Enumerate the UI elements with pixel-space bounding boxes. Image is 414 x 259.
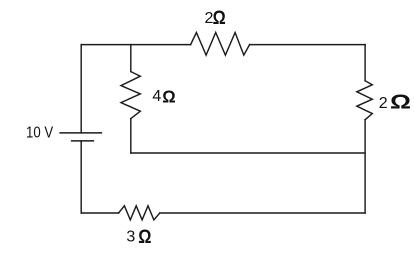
svg-text:2: 2	[379, 95, 388, 112]
svg-text:Ω: Ω	[213, 8, 226, 29]
wire top-left segment	[81, 44, 190, 46]
wire bottom-right segment	[160, 212, 365, 214]
svg-text:Ω: Ω	[162, 86, 175, 106]
wire bottom-left segment	[81, 212, 118, 214]
battery 10 V (long plate + short plate)	[60, 133, 101, 141]
svg-text:Ω: Ω	[138, 227, 151, 248]
wire branch 4ohm upper	[130, 45, 132, 72]
wire top-right segment	[250, 44, 366, 46]
resistor 4ohm middle branch	[121, 72, 140, 119]
svg-text:10 V: 10 V	[26, 124, 53, 141]
wire right upper	[364, 45, 366, 81]
svg-text:Ω: Ω	[390, 92, 411, 114]
wire left lower (battery bottom lead)	[80, 141, 82, 213]
resistor 2ohm top	[191, 33, 250, 56]
svg-text:4: 4	[152, 88, 161, 105]
resistor 2ohm right	[357, 81, 373, 120]
wire left upper (battery top lead)	[80, 45, 82, 133]
svg-text:3: 3	[126, 229, 135, 246]
wire branch 4ohm lower	[130, 119, 132, 153]
wire right lower	[364, 120, 366, 213]
wire middle horizontal	[131, 152, 365, 154]
resistor 3ohm bottom	[119, 206, 160, 220]
